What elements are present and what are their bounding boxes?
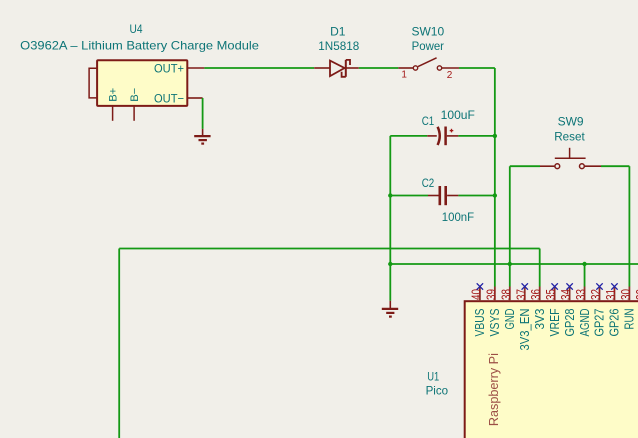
wire C2 to vertical xyxy=(458,195,494,197)
pin numbers xyxy=(468,289,638,300)
wire OUT+ to diode xyxy=(204,67,314,69)
svg-text:100uF: 100uF xyxy=(441,108,475,122)
svg-text:GP26: GP26 xyxy=(608,308,622,336)
svg-text:OUT+: OUT+ xyxy=(154,61,184,75)
U1 pins xyxy=(480,287,630,302)
pin 36 3V3 xyxy=(539,287,541,302)
wire SW10 to corner xyxy=(459,67,495,69)
wire SW9 left vertical xyxy=(509,166,511,264)
pin 33 AGND xyxy=(584,287,586,302)
svg-text:VSYS: VSYS xyxy=(488,309,502,337)
charge module U4 body xyxy=(97,60,187,106)
pin 30 RUN xyxy=(628,287,630,302)
junction C2 left xyxy=(388,193,392,197)
wire 3V3 down to pin 36 xyxy=(539,249,541,287)
svg-text:1N5818: 1N5818 xyxy=(318,39,359,53)
no-connect pin 32 xyxy=(596,283,602,289)
junction dots xyxy=(388,134,587,266)
svg-text:GP28: GP28 xyxy=(563,308,577,336)
svg-text:32: 32 xyxy=(588,289,603,300)
svg-text:Pico: Pico xyxy=(426,384,449,398)
no-connect pin 35 xyxy=(551,283,557,289)
svg-text:30: 30 xyxy=(618,289,633,300)
pin 34 GP28 xyxy=(569,287,571,302)
wire SW9 right vertical to RUN xyxy=(628,166,630,286)
pin 39 VSYS xyxy=(494,287,496,302)
svg-text:SW9: SW9 xyxy=(558,114,584,128)
svg-text:39: 39 xyxy=(483,289,498,300)
svg-text:VREF: VREF xyxy=(548,308,562,336)
capacitor C1 (polarized) xyxy=(427,127,458,146)
wire vertical to ground 2 xyxy=(389,264,391,301)
svg-text:U1: U1 xyxy=(427,370,439,384)
svg-text:Raspberry Pi: Raspberry Pi xyxy=(486,353,501,426)
svg-text:O3962A – Lithium Battery Charg: O3962A – Lithium Battery Charge Module xyxy=(20,38,259,52)
svg-text:36: 36 xyxy=(528,289,543,300)
junction gnd pin33 xyxy=(582,262,586,266)
svg-text:2: 2 xyxy=(447,70,453,81)
wire left to C2 xyxy=(390,195,428,197)
svg-text:33: 33 xyxy=(573,289,588,300)
C1 plus sign xyxy=(450,129,454,133)
push button SW9 xyxy=(540,148,601,169)
pin 37 3V3_EN xyxy=(524,287,526,302)
svg-text:OUT−: OUT− xyxy=(154,91,184,105)
U4 pin OUT- xyxy=(187,97,202,99)
svg-text:D1: D1 xyxy=(330,25,346,39)
svg-text:37: 37 xyxy=(513,289,528,300)
svg-text:3V3: 3V3 xyxy=(533,308,547,329)
svg-text:B+: B+ xyxy=(108,88,120,102)
svg-text:GP27: GP27 xyxy=(593,308,607,336)
svg-text:Power: Power xyxy=(412,39,444,53)
svg-text:RUN: RUN xyxy=(623,309,637,330)
no-connect X marks xyxy=(477,283,618,289)
wire left to C1 xyxy=(390,135,427,137)
svg-text:100nF: 100nF xyxy=(442,210,474,224)
svg-text:35: 35 xyxy=(543,289,558,300)
svg-text:1: 1 xyxy=(401,70,407,81)
svg-text:VBUS: VBUS xyxy=(473,309,487,337)
junction gnd pin38 xyxy=(508,262,512,266)
svg-text:C1: C1 xyxy=(422,114,435,128)
svg-text:C2: C2 xyxy=(422,176,435,190)
U4 pin B+ xyxy=(112,106,114,121)
no-connect pin 34 xyxy=(566,283,572,289)
U4 pin B- xyxy=(133,106,135,121)
svg-text:GND: GND xyxy=(503,309,517,330)
junction C1 right xyxy=(493,134,497,138)
svg-text:31: 31 xyxy=(603,289,618,300)
diode D1 (schottky) xyxy=(314,60,359,77)
svg-text:B−: B− xyxy=(129,88,141,102)
pin 32 GP27 xyxy=(599,287,601,302)
wire GND bus down to pin 38 xyxy=(509,264,511,287)
ground symbol under OUT- xyxy=(194,129,210,144)
wire diode to SW10 xyxy=(359,67,399,69)
wire bottom-left vertical xyxy=(118,249,120,438)
svg-text:3V3_EN: 3V3_EN xyxy=(518,309,532,351)
wire C1 to vertical xyxy=(458,135,494,137)
pin 38 GND xyxy=(509,287,511,302)
svg-text:U4: U4 xyxy=(130,22,143,36)
switch SW10 xyxy=(398,58,459,70)
junction C2 right xyxy=(493,193,497,197)
svg-text:38: 38 xyxy=(498,289,513,300)
svg-text:40: 40 xyxy=(468,289,483,300)
Raspberry Pi Pico U1 body xyxy=(465,301,638,438)
wire GND bus down to pin 33 AGND xyxy=(584,264,586,287)
wire SW9 right xyxy=(601,165,629,167)
no-connect pin 37 xyxy=(522,283,528,289)
svg-text:AGND: AGND xyxy=(578,309,592,337)
wire 3V3 horizontal xyxy=(119,248,540,250)
pin 31 GP26 xyxy=(613,287,615,302)
pin names xyxy=(473,308,636,350)
wire GND horizontal bus xyxy=(390,263,638,265)
junction gnd left xyxy=(388,262,392,266)
wire C1/C2 left vertical xyxy=(389,136,391,264)
wire SW9 left xyxy=(510,165,540,167)
svg-text:SW10: SW10 xyxy=(411,25,444,39)
pin 40 VBUS xyxy=(479,287,481,302)
U4 left-side pins bracket wire xyxy=(89,68,97,98)
capacitor C2 xyxy=(428,186,458,205)
svg-text:Reset: Reset xyxy=(554,130,585,144)
wire VSYS vertical xyxy=(494,68,496,287)
no-connect pin 31 xyxy=(611,283,617,289)
no-connect pin 40 xyxy=(477,283,483,289)
svg-text:29: 29 xyxy=(633,289,638,300)
ground symbol under C1/C2 xyxy=(382,301,398,317)
svg-text:34: 34 xyxy=(558,289,573,300)
pin 35 VREF xyxy=(554,287,556,302)
U4 pin OUT+ xyxy=(187,67,204,69)
wire OUT- down to ground xyxy=(202,98,204,129)
